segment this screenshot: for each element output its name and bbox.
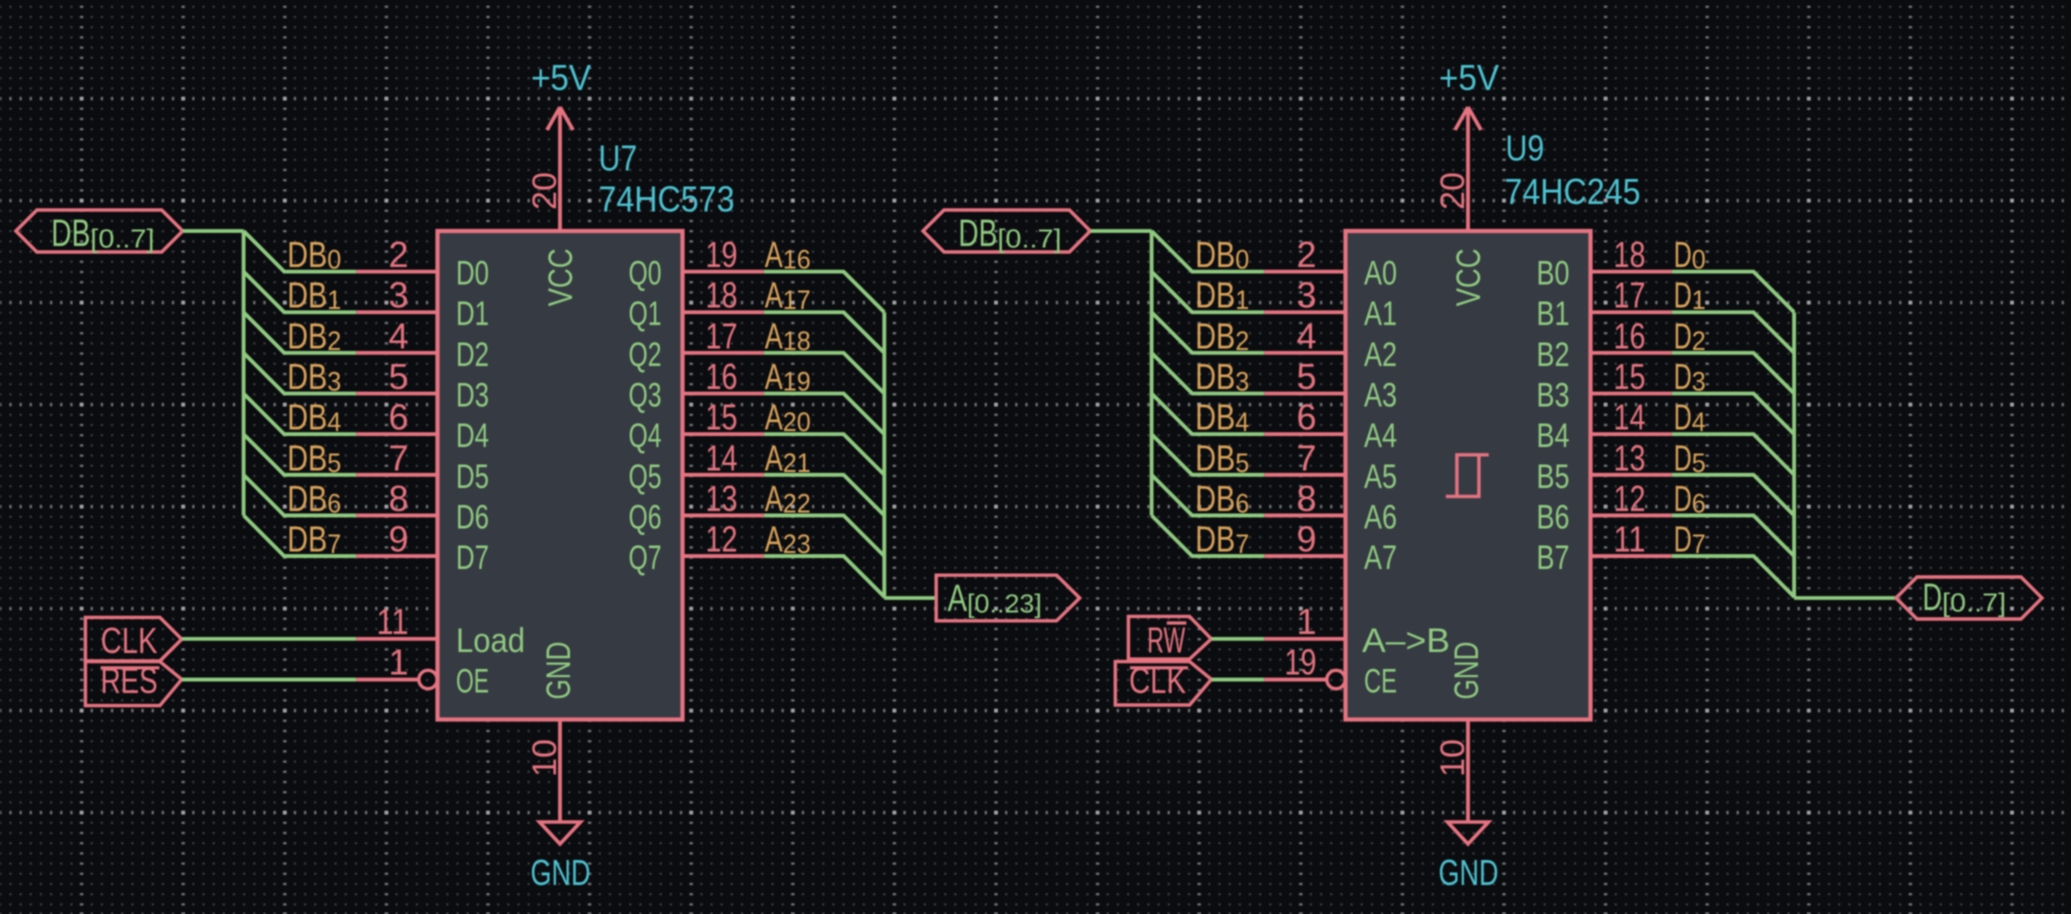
wire bus entry DB6 (U9 left row 6) — [1152, 475, 1265, 516]
svg-text:20: 20 — [526, 172, 564, 210]
svg-text:DB: DB — [287, 397, 327, 438]
svg-text:B6: B6 — [1537, 498, 1570, 536]
pin 6 (U9 A4) — [1264, 432, 1345, 436]
svg-text:DB: DB — [51, 213, 90, 255]
svg-text:9: 9 — [388, 519, 408, 560]
svg-text:2: 2 — [1235, 326, 1249, 356]
svg-text:D: D — [1674, 397, 1692, 438]
svg-text:1: 1 — [327, 285, 341, 315]
svg-text:A: A — [765, 437, 783, 478]
svg-text:0: 0 — [327, 245, 341, 275]
wire to A[0..23] label — [884, 596, 936, 600]
wire bus entry DB2 (U9 left row 2) — [1152, 312, 1265, 353]
svg-text:CE: CE — [1364, 663, 1397, 701]
wire bus entry DB1 (U9 left row 1) — [1152, 272, 1265, 313]
svg-text:8: 8 — [1296, 478, 1316, 519]
svg-text:12: 12 — [706, 519, 738, 560]
+5V power symbol (U7 pin 20) — [547, 107, 573, 231]
pin 2 (U9 A0) — [1264, 270, 1345, 274]
svg-text:19: 19 — [706, 234, 738, 275]
svg-text:13: 13 — [1614, 437, 1646, 478]
pin 12 (U7 Q7) — [683, 554, 764, 558]
svg-text:DB: DB — [1195, 315, 1235, 356]
pin 3 (U9 A1) — [1264, 310, 1345, 314]
svg-text:4: 4 — [388, 315, 408, 356]
wire Q7 to A-bus — [764, 556, 885, 597]
svg-text:4: 4 — [1296, 315, 1316, 356]
pin 1 (U9 A->B) — [1264, 637, 1345, 641]
svg-text:DB: DB — [1195, 234, 1235, 275]
svg-text:4: 4 — [1235, 407, 1249, 437]
svg-text:19: 19 — [1285, 642, 1317, 683]
svg-text:DB: DB — [287, 275, 327, 316]
svg-text:3: 3 — [388, 275, 408, 316]
svg-text:D5: D5 — [456, 458, 489, 496]
pin 13 (U7 Q6) — [683, 514, 764, 518]
svg-text:B1: B1 — [1537, 295, 1570, 333]
vertical bus (right of U9) — [1792, 312, 1796, 598]
svg-text:DB: DB — [287, 315, 327, 356]
svg-text:[0..7]: [0..7] — [90, 224, 154, 254]
svg-text:GND: GND — [540, 642, 578, 700]
pin 7 (U7 D5) — [356, 473, 437, 477]
svg-text:D: D — [1674, 478, 1692, 519]
svg-text:2: 2 — [327, 326, 341, 356]
global label RW (U9, W inverted) — [1128, 616, 1211, 659]
wire Q1 to A-bus — [764, 312, 885, 353]
svg-text:7: 7 — [388, 437, 408, 478]
svg-text:DB: DB — [958, 213, 997, 255]
svg-text:A: A — [948, 578, 968, 620]
svg-text:8: 8 — [388, 478, 408, 519]
svg-text:[0..7]: [0..7] — [1942, 588, 2006, 618]
svg-text:DB: DB — [1195, 478, 1235, 519]
svg-text:18: 18 — [706, 275, 738, 316]
svg-text:D: D — [1674, 275, 1692, 316]
svg-text:[0..23]: [0..23] — [967, 589, 1042, 619]
svg-text:B5: B5 — [1537, 458, 1570, 496]
bus label A[0..23] — [936, 575, 1079, 621]
wire from DB[0..7] to bus (U9) — [1090, 229, 1151, 233]
svg-text:D: D — [1674, 437, 1692, 478]
svg-text:74HC573: 74HC573 — [599, 179, 735, 220]
svg-text:OE: OE — [456, 663, 489, 701]
svg-text:A3: A3 — [1364, 377, 1397, 415]
wire B0 to D-bus — [1672, 272, 1794, 313]
pin 16 (U9 B2) — [1591, 351, 1672, 355]
svg-text:A: A — [765, 234, 783, 275]
wire B4 to D-bus — [1672, 434, 1794, 475]
wire B2 to D-bus — [1672, 353, 1794, 394]
svg-text:15: 15 — [706, 397, 738, 438]
svg-text:5: 5 — [1235, 448, 1249, 478]
svg-text:7: 7 — [327, 529, 341, 559]
svg-text:GND: GND — [531, 852, 591, 893]
svg-text:Q5: Q5 — [629, 458, 662, 496]
wire B6 to D-bus — [1672, 515, 1794, 556]
schmitt trigger symbol inside U9 — [1446, 455, 1489, 497]
svg-text:DB: DB — [287, 356, 327, 397]
wire Q5 to A-bus — [764, 475, 885, 516]
wire bus entry DB4 (U9 left row 4) — [1152, 394, 1265, 435]
svg-text:D7: D7 — [456, 539, 489, 577]
wire Q3 to A-bus — [764, 394, 885, 435]
svg-text:DB: DB — [287, 478, 327, 519]
svg-text:A5: A5 — [1364, 458, 1397, 496]
svg-text:GND: GND — [1439, 852, 1499, 893]
svg-text:VCC: VCC — [542, 248, 580, 306]
svg-text:1: 1 — [1235, 285, 1249, 315]
wire bus entry DB2 (U7 left row 2) — [244, 312, 357, 353]
svg-text:A7: A7 — [1364, 539, 1397, 577]
svg-text:DB: DB — [287, 437, 327, 478]
svg-text:13: 13 — [706, 478, 738, 519]
pin 9 (U7 D7) — [356, 554, 437, 558]
IC U9 74HC245 body — [1346, 231, 1591, 720]
pin 4 (U9 A2) — [1264, 351, 1345, 355]
wire bus entry DB0 (U9 left row 0) — [1152, 231, 1265, 272]
GND power symbol (U9 pin 10) — [1448, 720, 1489, 845]
svg-text:CLK: CLK — [101, 620, 158, 661]
pin 12 (U9 B6) — [1591, 514, 1672, 518]
global label CLK (U7) — [85, 617, 181, 661]
pin 15 (U7 Q4) — [683, 432, 764, 436]
svg-text:10: 10 — [1434, 739, 1472, 777]
svg-text:Q6: Q6 — [629, 498, 662, 536]
pin 6 (U7 D4) — [356, 432, 437, 436]
pin 14 (U7 Q5) — [683, 473, 764, 477]
pin 4 (U7 D2) — [356, 351, 437, 355]
svg-text:D3: D3 — [456, 377, 489, 415]
svg-text:12: 12 — [1614, 478, 1646, 519]
svg-text:D2: D2 — [456, 336, 489, 374]
svg-text:+5V: +5V — [531, 57, 591, 98]
svg-text:A: A — [765, 356, 783, 397]
wire RW to A->B pin — [1211, 637, 1264, 641]
pin 9 (U9 A7) — [1264, 554, 1345, 558]
wire bus entry DB3 (U7 left row 3) — [244, 353, 357, 394]
pin 17 (U9 B1) — [1591, 310, 1672, 314]
svg-text:14: 14 — [706, 437, 738, 478]
svg-text:B3: B3 — [1537, 377, 1570, 415]
svg-text:B7: B7 — [1537, 539, 1570, 577]
svg-text:D: D — [1674, 315, 1692, 356]
svg-text:11: 11 — [377, 601, 409, 642]
wire Q4 to A-bus — [764, 434, 885, 475]
svg-text:D0: D0 — [456, 255, 489, 293]
vertical bus (left of U9) — [1150, 231, 1154, 515]
bus label D[0..7] — [1896, 577, 2042, 619]
wire B1 to D-bus — [1672, 312, 1794, 353]
pin 13 (U9 B5) — [1591, 473, 1672, 477]
wire RES to OE pin — [182, 678, 357, 682]
svg-text:Q2: Q2 — [629, 336, 662, 374]
svg-text:3: 3 — [1235, 367, 1249, 397]
pin 19 (U7 Q0) — [683, 270, 764, 274]
svg-text:B2: B2 — [1537, 336, 1570, 374]
svg-text:VCC: VCC — [1450, 248, 1488, 306]
wire B3 to D-bus — [1672, 394, 1794, 435]
wire bus entry DB3 (U9 left row 3) — [1152, 353, 1265, 394]
svg-text:9: 9 — [1296, 519, 1316, 560]
svg-text:1: 1 — [1296, 601, 1316, 642]
svg-text:DB: DB — [1195, 275, 1235, 316]
svg-text:17: 17 — [706, 315, 738, 356]
svg-text:D6: D6 — [456, 498, 489, 536]
svg-text:DB: DB — [1195, 437, 1235, 478]
svg-text:RW: RW — [1147, 620, 1185, 661]
svg-text:GND: GND — [1448, 642, 1486, 700]
svg-text:Q3: Q3 — [629, 377, 662, 415]
svg-text:DB: DB — [1195, 519, 1235, 560]
svg-text:7: 7 — [1296, 437, 1316, 478]
svg-text:16: 16 — [706, 356, 738, 397]
svg-text:D: D — [1674, 234, 1692, 275]
svg-text:3: 3 — [1296, 275, 1316, 316]
svg-text:14: 14 — [1614, 397, 1646, 438]
svg-text:6: 6 — [327, 488, 341, 518]
pin 8 (U7 D6) — [356, 514, 437, 518]
pin 16 (U7 Q3) — [683, 392, 764, 396]
+5V power symbol (U9 pin 20) — [1455, 107, 1481, 231]
svg-text:A6: A6 — [1364, 498, 1397, 536]
svg-text:D: D — [1923, 577, 1943, 619]
wire to D[0..7] label — [1794, 596, 1896, 600]
IC U7 74HC573 body — [438, 231, 683, 720]
svg-text:Load: Load — [456, 622, 525, 660]
svg-text:D1: D1 — [456, 295, 489, 333]
pin 8 (U9 A6) — [1264, 514, 1345, 518]
pin 11 (U9 B7) — [1591, 554, 1672, 558]
pin 1 (U7 OE, inverted) — [356, 678, 418, 682]
wire bus entry DB6 (U7 left row 6) — [244, 475, 357, 516]
vertical bus (right of U7) — [882, 312, 886, 598]
global label RES (U7, active low) — [85, 662, 181, 706]
pin 18 (U9 B0) — [1591, 270, 1672, 274]
pin 7 (U9 A5) — [1264, 473, 1345, 477]
wire CLK to Load pin — [182, 637, 357, 641]
svg-text:U7: U7 — [599, 138, 638, 179]
wire Q6 to A-bus — [764, 515, 885, 556]
svg-text:A: A — [765, 315, 783, 356]
svg-text:18: 18 — [1614, 234, 1646, 275]
svg-text:4: 4 — [327, 407, 341, 437]
pin 5 (U7 D3) — [356, 392, 437, 396]
svg-text:3: 3 — [327, 367, 341, 397]
svg-text:6: 6 — [1296, 397, 1316, 438]
svg-text:DB: DB — [1195, 356, 1235, 397]
svg-text:DB: DB — [287, 234, 327, 275]
svg-text:15: 15 — [1614, 356, 1646, 397]
svg-text:A: A — [765, 275, 783, 316]
wire from DB[0..7] to bus — [183, 229, 244, 233]
svg-text:DB: DB — [1195, 397, 1235, 438]
svg-text:A: A — [765, 397, 783, 438]
svg-text:+5V: +5V — [1439, 57, 1499, 98]
svg-text:5: 5 — [388, 356, 408, 397]
wire Q2 to A-bus — [764, 353, 885, 394]
wire Q0 to A-bus — [764, 272, 885, 313]
pin 2 (U7 D0) — [356, 270, 437, 274]
pin 19 (U9 CE, inverted) — [1264, 678, 1326, 682]
wire CLK to CE pin — [1211, 678, 1264, 682]
pin 15 (U9 B3) — [1591, 392, 1672, 396]
wire bus entry DB0 (U7 left row 0) — [244, 231, 357, 272]
pin 5 (U9 A3) — [1264, 392, 1345, 396]
pin 18 (U7 Q1) — [683, 310, 764, 314]
svg-text:B4: B4 — [1537, 417, 1570, 455]
bus label DB[0..7] left — [16, 210, 183, 252]
svg-text:17: 17 — [1614, 275, 1646, 316]
svg-text:DB: DB — [287, 519, 327, 560]
svg-text:D: D — [1674, 356, 1692, 397]
svg-text:11: 11 — [1614, 519, 1646, 560]
wire bus entry DB5 (U7 left row 5) — [244, 434, 357, 475]
wire bus entry DB4 (U7 left row 4) — [244, 394, 357, 435]
svg-text:[0..7]: [0..7] — [997, 224, 1061, 254]
svg-text:16: 16 — [1614, 315, 1646, 356]
svg-text:A: A — [765, 478, 783, 519]
svg-text:5: 5 — [1296, 356, 1316, 397]
vertical bus (left of U7) — [242, 231, 246, 515]
global label CLK (U9, active low) — [1115, 662, 1211, 705]
svg-text:5: 5 — [327, 448, 341, 478]
wire bus entry DB5 (U9 left row 5) — [1152, 434, 1265, 475]
svg-text:D: D — [1674, 519, 1692, 560]
svg-text:1: 1 — [388, 642, 408, 683]
svg-text:6: 6 — [1235, 488, 1249, 518]
pin 3 (U7 D1) — [356, 310, 437, 314]
svg-text:Q0: Q0 — [629, 255, 662, 293]
svg-text:2: 2 — [388, 234, 408, 275]
svg-text:A1: A1 — [1364, 295, 1397, 333]
svg-text:U9: U9 — [1506, 128, 1545, 169]
GND power symbol (U7 pin 10) — [540, 720, 581, 845]
svg-text:Q1: Q1 — [629, 295, 662, 333]
svg-text:0: 0 — [1235, 245, 1249, 275]
wire B5 to D-bus — [1672, 475, 1794, 516]
wire B7 to D-bus — [1672, 556, 1794, 597]
pin 14 (U9 B4) — [1591, 432, 1672, 436]
svg-text:D4: D4 — [456, 417, 489, 455]
pin 11 (U7 Load) — [356, 637, 437, 641]
svg-text:6: 6 — [388, 397, 408, 438]
wire bus entry DB1 (U7 left row 1) — [244, 272, 357, 313]
wire bus entry DB7 (U7 left row 7) — [244, 515, 357, 556]
svg-text:20: 20 — [1434, 172, 1472, 210]
pin 17 (U7 Q2) — [683, 351, 764, 355]
svg-text:2: 2 — [1296, 234, 1316, 275]
svg-text:A: A — [765, 519, 783, 560]
wire bus entry DB7 (U9 left row 7) — [1152, 515, 1265, 556]
svg-text:A0: A0 — [1364, 255, 1397, 293]
svg-text:7: 7 — [1235, 529, 1249, 559]
svg-text:A–>B: A–>B — [1362, 622, 1450, 660]
svg-text:Q7: Q7 — [629, 539, 662, 577]
svg-text:74HC245: 74HC245 — [1505, 171, 1641, 212]
svg-text:A4: A4 — [1364, 417, 1397, 455]
bus label DB[0..7] (U9 side) — [923, 210, 1090, 252]
svg-text:A2: A2 — [1364, 336, 1397, 374]
svg-text:B0: B0 — [1537, 255, 1570, 293]
svg-text:Q4: Q4 — [629, 417, 662, 455]
svg-text:10: 10 — [526, 739, 564, 777]
